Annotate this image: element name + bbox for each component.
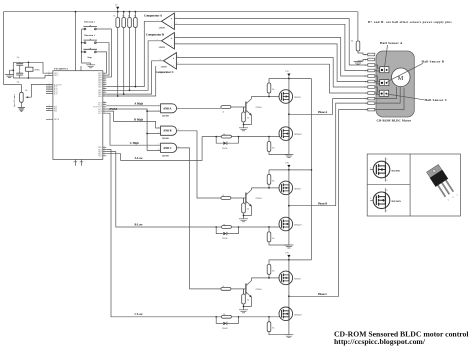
svg-text:AND C: AND C [163,147,171,150]
svg-text:Comparator B: Comparator B [146,33,164,37]
wire Stop to RB7 [99,52,107,73]
svg-text:8MHz: 8MHz [35,69,40,71]
resistor bridge A base 1k [221,106,246,114]
svg-text:27: 27 [103,93,105,95]
motor pin boxes [368,53,375,111]
wire comparator B minus input line to motor B- [174,44,367,82]
node pull-up R4 row [135,86,137,88]
svg-text:10k: 10k [122,15,125,17]
resistor R3 10k pull-up [128,12,132,91]
ground hall sensors [354,60,368,65]
legend box [367,154,460,216]
svg-text:34: 34 [103,83,105,85]
svg-text:1N4148: 1N4148 [222,148,228,150]
svg-text:19: 19 [103,146,105,148]
resistor bridge B gate pulldown 10k [267,227,289,245]
ground bridge C driver [239,310,248,313]
AND gate pin numbers [158,104,179,151]
svg-text:10k: 10k [128,15,131,17]
svg-text:14: 14 [48,74,50,76]
svg-text:Comparator C: Comparator C [156,70,174,74]
PIC right pin labels bottom group [98,147,102,158]
svg-text:20: 20 [103,148,105,150]
resistor bridge A gate pulldown 10k [267,137,289,155]
node crystal to osc wires [28,62,30,64]
PIC left pin labels [54,73,61,121]
svg-text:H+ and H- are hall effect sens: H+ and H- are hall effect sensors power … [368,20,452,24]
wire bridge A P gate [251,96,279,98]
wire 12V distribution rail [310,79,312,260]
svg-text:G: G [448,200,450,202]
wire C High [106,113,160,145]
node VDD junction [75,11,77,13]
transistor Q5 IRF4905 P-MOSFET high side B [279,181,301,195]
wire Direction1 to RB6 [99,43,109,75]
resistor bridge C base 1k [221,286,246,294]
wire AND C output down to bridge C [177,148,221,289]
wire bridge C P gate [251,277,279,279]
transistor Q8 IRF4905 P-MOSFET high side C [279,271,301,285]
resistor diode network bridge C 1N4148 [215,314,239,330]
ground buttons [86,63,95,68]
pushbutton Direction 1 [82,35,99,43]
ground bridge B source [284,245,293,248]
svg-text:30: 30 [103,87,105,89]
svg-text:10k: 10k [272,89,275,91]
svg-text:Speed Control: Speed Control [14,93,16,107]
svg-text:S: S [386,211,387,213]
svg-text:10k: 10k [223,224,226,226]
svg-text:10k: 10k [272,147,275,149]
svg-text:RC5: RC5 [98,113,101,115]
svg-text:10k: 10k [272,270,275,272]
svg-text:G: G [370,167,372,169]
transistor Q3 IRFZ44N N-MOSFET low side A [279,127,302,141]
svg-text:10k: 10k [25,90,28,92]
svg-text:39: 39 [103,74,105,76]
ground bridge C source [284,335,293,338]
svg-text:IRF4905: IRF4905 [392,170,401,172]
wire AND B output down to bridge B [177,131,221,198]
PIC bottom pins VSS [74,159,84,165]
transistor Q7 2N3904 [244,278,262,307]
wire bridge C drain column [288,260,290,335]
svg-text:+: + [173,57,175,61]
svg-text:28: 28 [103,91,105,93]
transistor Q1 2N3904 [244,97,262,125]
resistor hall supply 10k [351,12,368,55]
resistor bridge A gate pull-up 10k [267,79,274,97]
wire A Low [106,137,216,161]
motor winding circle M [392,68,411,87]
svg-text:AND A: AND A [163,107,171,110]
svg-text:A High: A High [134,102,143,106]
PIC right pin stubs top group [103,73,107,96]
svg-text:IRF4905: IRF4905 [294,97,301,99]
svg-text:-: - [173,63,174,67]
TO-220 package drawing [426,164,455,198]
svg-text:10k: 10k [272,180,275,182]
svg-text:Phase B: Phase B [318,202,327,205]
svg-text:Comparator A: Comparator A [144,14,163,18]
wire OSC1 [43,62,53,73]
resistor R4 10k pull-up [134,12,138,87]
svg-text:10k: 10k [223,134,226,136]
wire button chain left [82,29,91,63]
svg-text:AND B: AND B [163,130,171,133]
svg-text:12V: 12V [285,253,289,255]
resistor bridge C gate pulldown 10k [267,317,289,335]
svg-text:Phase A: Phase A [318,111,327,114]
wire comparator A plus input line to motor A+ [174,19,367,65]
PIC right pin labels top group [98,73,102,98]
svg-text:2N3904: 2N3904 [255,198,261,200]
node phase B [288,205,290,207]
node pull-up R1 row [117,95,119,97]
svg-text:+: + [171,17,173,21]
svg-text:IRFZ44N: IRFZ44N [294,225,302,227]
svg-text:74LS08: 74LS08 [162,138,170,140]
svg-text:13: 13 [48,72,50,74]
svg-text:35: 35 [103,81,105,83]
wire comparator C output to RB2 row [106,61,163,94]
svg-text:23: 23 [103,110,105,112]
svg-text:A: A [365,98,367,101]
legend IRF4905 symbol [370,158,401,182]
transistor Q6 IRFZ44N N-MOSFET low side B [279,217,302,231]
svg-text:10k: 10k [272,238,275,240]
hall sensor A [375,65,389,73]
svg-text:37: 37 [103,78,105,80]
svg-text:A Low: A Low [135,156,144,160]
svg-text:2N3904: 2N3904 [255,107,261,109]
wire comparator A output to RB4 row [106,21,161,86]
wire Direction2 to RB5 [99,29,112,77]
power 12V bridge A [285,71,290,78]
svg-text:IRF4905: IRF4905 [294,279,301,281]
wire comparator B output to RB3 row [106,41,161,91]
label Hall Sensor A with leader [380,41,403,67]
svg-text:IRFZ44N: IRFZ44N [294,134,302,136]
svg-text:C+: C+ [364,87,366,89]
svg-text:-: - [171,43,172,47]
svg-text:5V: 5V [115,4,118,6]
svg-text:IRF4905: IRF4905 [294,189,301,191]
svg-text:B+: B+ [364,76,366,78]
comparator pin numbers [158,17,179,65]
svg-text:36: 36 [103,79,105,81]
svg-text:IRFZ44N: IRFZ44N [294,314,302,316]
svg-text:12V: 12V [285,163,289,165]
resistor bridge B base 1k [221,195,246,203]
svg-text:LM339: LM339 [161,67,167,69]
node C1 C2 mid junction [13,69,15,71]
wire 5V top rail [4,12,358,85]
svg-text:G: G [370,198,372,200]
motor CD-ROM BLDC body [376,51,414,117]
wire comparator A minus input line to motor A- [174,24,367,70]
svg-text:B High: B High [134,117,143,121]
pushbutton Direction 2 [82,22,99,30]
svg-text:1N4148: 1N4148 [222,238,228,240]
wire OSC2 [45,75,53,78]
svg-text:RA5: RA5 [54,92,57,95]
svg-text:D: D [452,197,454,199]
legend IRFZ44N symbol [370,188,401,212]
node 12V rail bridge B [311,169,313,171]
PIC right pin stubs mid group [103,103,107,114]
microcontroller U1 PIC16F877A [53,68,103,160]
power 12V bridge B [285,163,290,170]
wire comparator C minus input line to motor C- [176,64,367,93]
svg-text:1N4148: 1N4148 [222,328,228,330]
svg-text:40: 40 [103,72,105,74]
svg-text:38: 38 [103,76,105,78]
ground bridge A source [284,155,293,158]
svg-text:H+: H+ [364,54,366,56]
svg-text:12V: 12V [285,71,289,73]
svg-text:A+: A+ [364,64,366,67]
node pull-up R3 row [129,89,131,91]
node pull-up R2 row [123,93,125,95]
wire pot wiper to RA0 [31,84,53,97]
resistor diode network bridge B 1N4148 [215,224,239,240]
svg-text:10k: 10k [247,209,250,211]
wire A High [106,105,160,107]
PIC left pin stubs [46,73,53,119]
wire bridge C N gate [239,316,280,318]
svg-text:RD4: RD4 [98,96,101,98]
wire reference row [106,66,155,96]
svg-text:IRFZ44N: IRFZ44N [392,201,402,203]
svg-text:+: + [171,36,173,40]
AND gate U3B 74LS08 [161,126,177,140]
svg-text:Hall Sensor B: Hall Sensor B [422,59,445,63]
svg-text:D: D [386,190,388,192]
power 12V bridge C [285,253,290,260]
TO-220 leg labels [448,194,458,201]
ground bridge B driver [239,219,248,222]
svg-text:33: 33 [103,85,105,87]
svg-text:10k: 10k [247,118,250,120]
node button chain [81,42,83,44]
crystal X1 8MHz [26,62,40,78]
wire PWM to AND gates [106,109,160,151]
wire B Low [106,152,216,227]
wire bridge A rail [269,78,311,80]
svg-text:MCLR: MCLR [54,119,60,121]
hall sensor C [375,87,389,96]
resistor R1 10k pull-up [113,12,119,96]
svg-text:OSC2: OSC2 [54,75,58,77]
transistor Q9 IRFZ44N N-MOSFET low side C [279,307,302,321]
wire VDD to PIC top pin [76,12,82,71]
svg-text:A-: A- [365,69,367,72]
svg-text:18: 18 [103,108,105,110]
svg-text:S: S [386,159,387,161]
svg-text:CD-ROM BLDC Motor: CD-ROM BLDC Motor [377,119,412,123]
svg-text:H-: H- [365,59,367,61]
wire bridge B N gate [239,226,280,228]
svg-text:PWM: PWM [110,107,118,111]
wire bridge B drain column [288,170,290,245]
svg-text:10k: 10k [134,15,137,17]
svg-text:Hall Sensor C: Hall Sensor C [425,98,448,102]
svg-text:22p: 22p [17,57,20,59]
PIC right pin labels mid group [94,102,102,115]
wire B High [106,111,160,128]
wire motor phase leads internal [375,87,404,110]
power 5V symbol [115,4,119,11]
svg-text:17: 17 [103,105,105,107]
node phase A [288,113,290,115]
wire crystal left rail [9,62,45,78]
svg-text:RE2: RE2 [54,110,57,112]
capacitor C1 22p [16,57,23,70]
wire 5V to speed pot [4,85,22,93]
svg-text:2N3904: 2N3904 [255,289,261,291]
svg-text:C Low: C Low [135,312,144,316]
PIC right pin stubs bottom group [103,147,107,156]
svg-text:10k: 10k [247,300,250,302]
wire AND A output to base resistor [177,107,221,109]
node phase C [288,295,290,297]
svg-text:1k: 1k [222,195,224,197]
svg-text:14: 14 [160,59,162,61]
svg-text:19: 19 [103,95,105,97]
svg-text:RB0: RB0 [98,87,101,89]
svg-text:RC6: RC6 [98,156,101,158]
resistor bridge B base pulldown 10k [242,198,250,219]
resistor R2 10k pull-up [122,12,126,94]
label Hall Sensor B with leader [388,59,445,81]
svg-text:-: - [171,24,172,28]
wire comparator B plus input line to motor B+ [174,38,367,77]
ground crystal caps [5,75,14,78]
AND gate U3A 74LS08 [161,104,177,118]
svg-text:http://ccspicc.blogspot.com/: http://ccspicc.blogspot.com/ [334,337,426,346]
op-amp U2A Comparator A LM339 [144,13,174,30]
wire bridge A N gate [239,136,280,138]
svg-text:Hall Sensor A: Hall Sensor A [380,41,403,45]
svg-text:74LS08: 74LS08 [162,116,170,118]
svg-text:22: 22 [103,152,105,154]
svg-text:PIC16F877A: PIC16F877A [54,68,68,71]
capacitor C2 22p [16,70,23,83]
svg-text:Stop: Stop [87,57,92,59]
motor pin labels [364,54,367,111]
op-amp U2B Comparator B LM339 [146,33,174,50]
transistor Q2 IRF4905 P-MOSFET high side A [279,90,301,104]
resistor bridge C gate pull-up 10k [267,260,274,278]
svg-text:S: S [457,194,458,196]
svg-text:10: 10 [158,149,160,151]
svg-text:C High: C High [130,141,139,145]
svg-text:10: 10 [48,109,50,111]
resistor bridge C base pulldown 10k [242,289,250,310]
AND gate U3C 74LS08 [161,143,177,157]
ground speed pot [18,108,25,112]
svg-text:24: 24 [103,112,105,114]
wire phase C to motor [289,110,368,297]
svg-text:10k: 10k [351,41,354,43]
resistor diode network bridge A 1N4148 [215,134,239,150]
svg-text:74LS08: 74LS08 [162,155,170,157]
node PWM junctions [146,110,148,112]
hall sensor B [375,76,389,86]
wire C Low [106,149,216,316]
wire bridge C rail [269,259,311,261]
wire comparator C plus input line to motor C+ [176,58,367,87]
wire bridge B rail [269,169,311,171]
svg-text:29: 29 [103,89,105,91]
transistor Q4 2N3904 [244,188,262,216]
svg-text:1k: 1k [222,286,224,288]
svg-text:25: 25 [103,154,105,156]
svg-text:10k: 10k [272,328,275,330]
svg-text:Phase C: Phase C [318,293,327,296]
svg-text:Direction 2: Direction 2 [84,22,94,24]
potentiometer speed control 10k [14,90,32,107]
ground bridge A driver [239,128,248,131]
resistor bridge B gate pull-up 10k [267,170,274,188]
svg-text:LM339: LM339 [159,28,165,30]
svg-text:D: D [386,180,388,182]
wire bridge B P gate [251,187,279,189]
op-amp U2C Comparator C LM339 [156,53,177,74]
label Hall Sensor C with leader [387,94,448,102]
svg-text:10k: 10k [223,314,226,316]
svg-text:22p: 22p [17,82,20,84]
pushbutton Stop [82,48,99,59]
svg-text:LM339: LM339 [159,47,165,49]
resistor bridge A base pulldown 10k [242,107,250,128]
svg-text:15: 15 [103,101,105,103]
wire phase B to motor [289,103,368,206]
PIC pin numbers [48,72,105,157]
wire bridge A drain column [288,79,290,155]
svg-text:B Low: B Low [135,222,144,226]
svg-text:Direction 1: Direction 1 [84,35,94,37]
svg-text:10k: 10k [113,15,116,17]
wire phase A to motor [289,99,368,115]
svg-text:16: 16 [103,103,105,105]
svg-text:1k: 1k [222,112,224,114]
svg-text:21: 21 [103,150,105,152]
node pull-up junctions on 5V rail [117,11,119,13]
